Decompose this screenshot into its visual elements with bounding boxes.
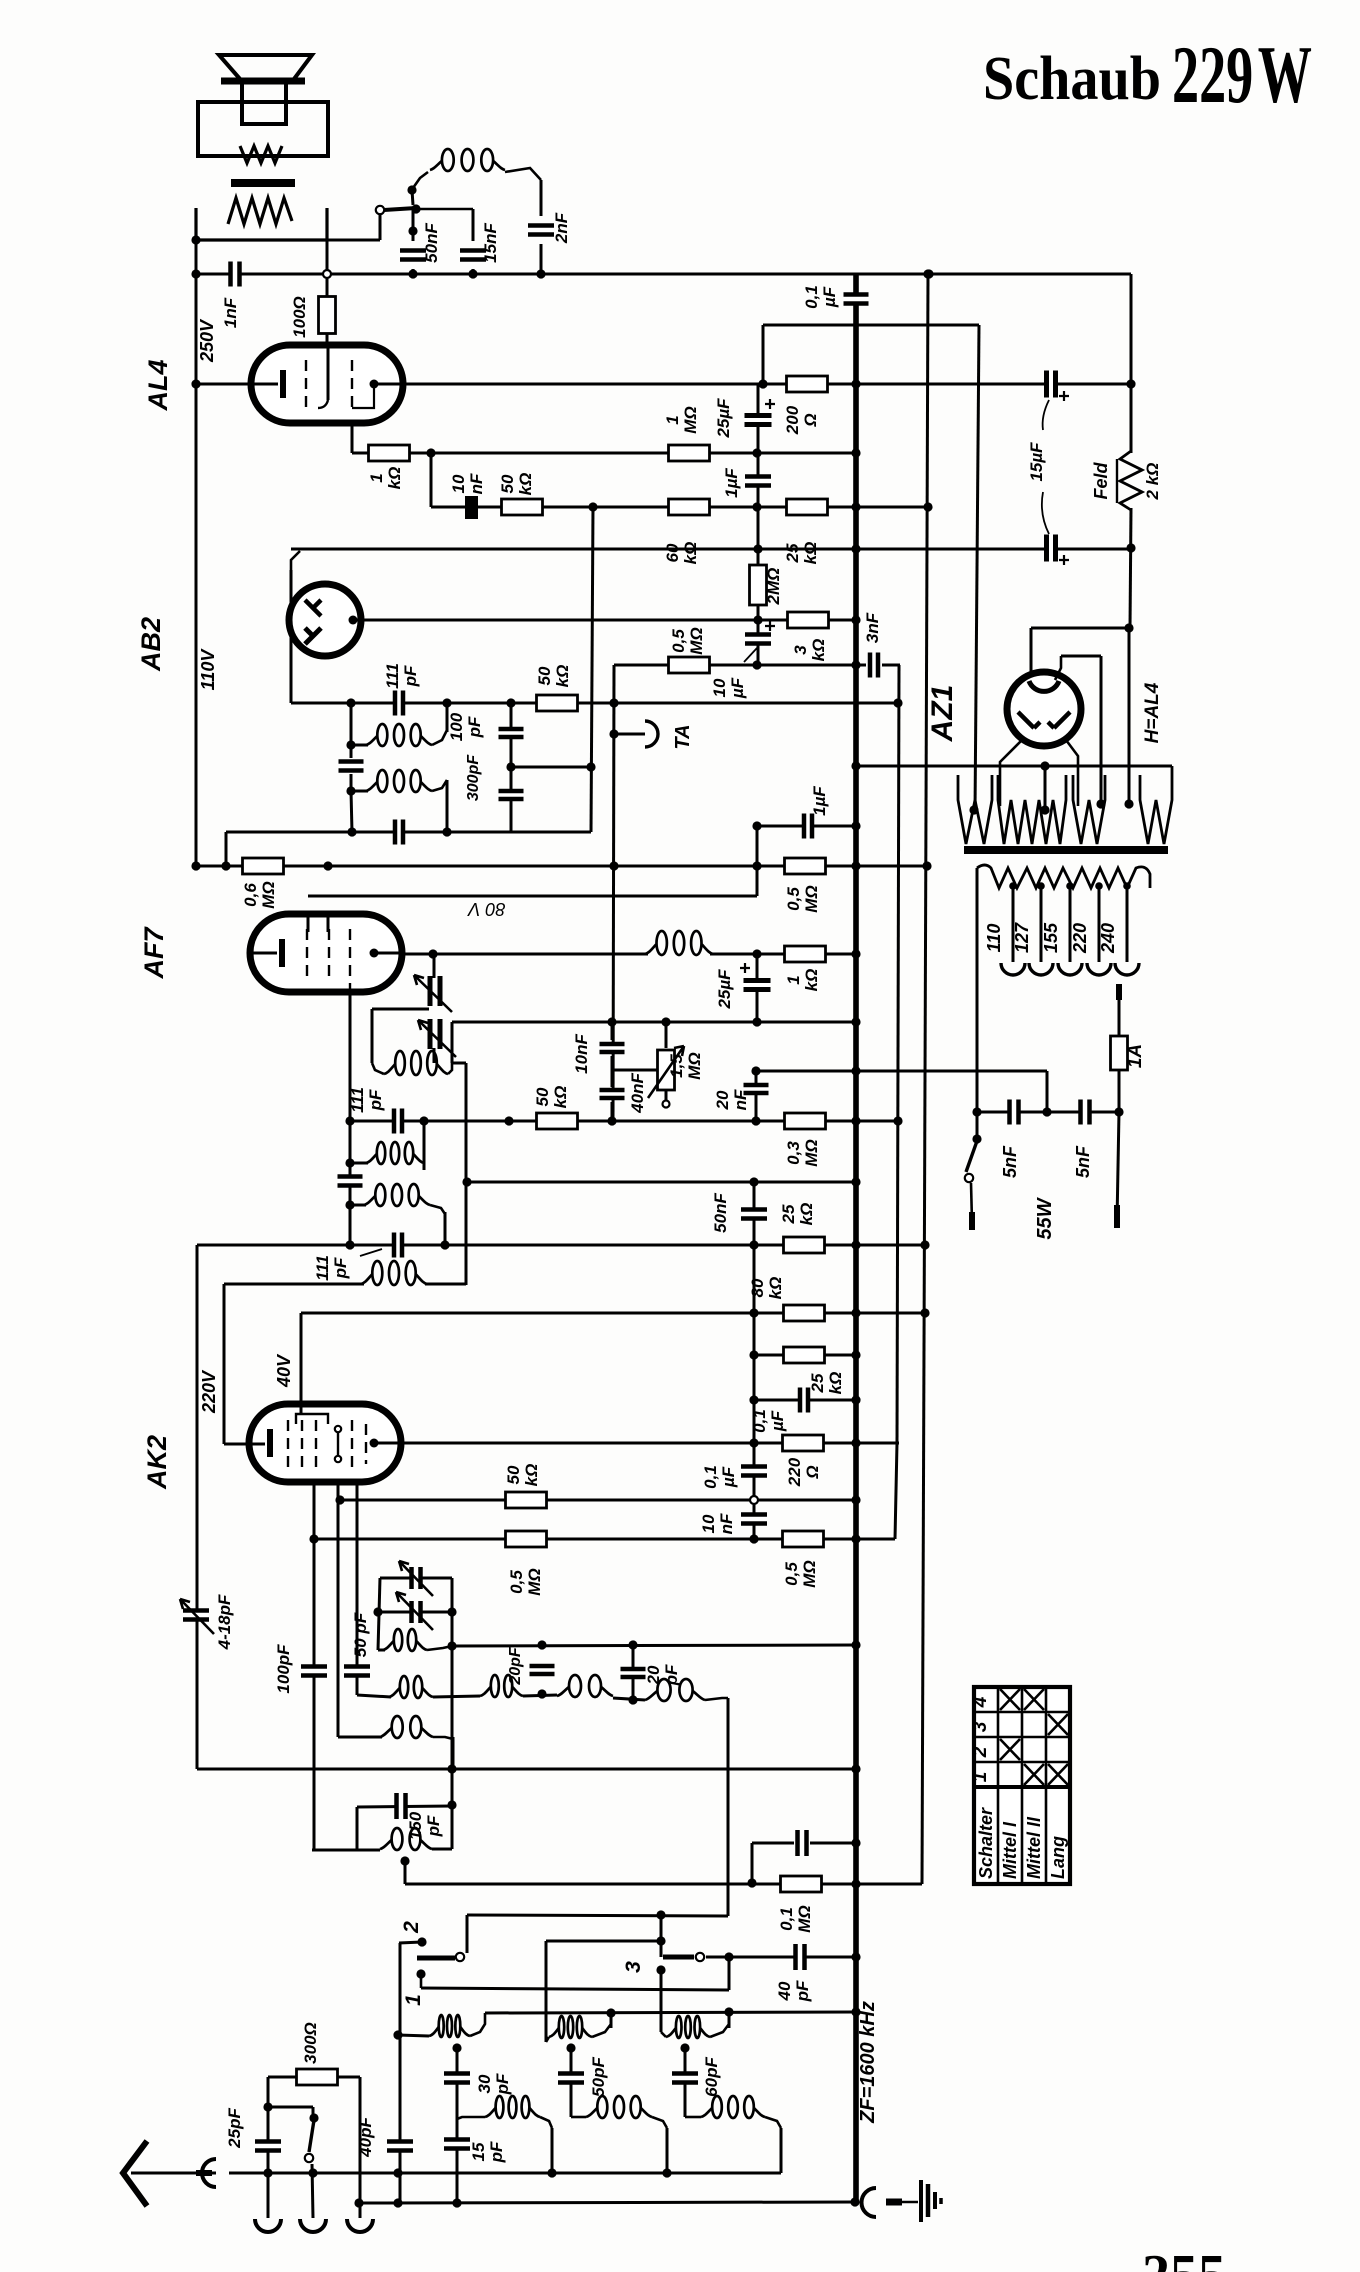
svg-text:3nF: 3nF xyxy=(863,612,882,643)
coil tank2 bottom xyxy=(586,2096,652,2118)
capacitor 0,1uF (AK2) xyxy=(741,1466,767,1477)
wire row y1355 xyxy=(754,1354,856,1357)
wire IF1a left stub xyxy=(351,744,368,747)
coil IF2a xyxy=(366,1142,424,1164)
node 666,1022 xyxy=(661,1017,670,1026)
node 612,1121 xyxy=(607,1116,616,1125)
AL4 screen lead inside xyxy=(327,348,330,400)
node 1045,810 xyxy=(1040,805,1049,814)
node 757,826 xyxy=(752,821,761,830)
svg-text:111: 111 xyxy=(348,1087,367,1113)
table X r1 Mittel II xyxy=(1024,1764,1044,1785)
AZ1 top lead xyxy=(1030,628,1033,676)
wire row y1022 xyxy=(452,1021,856,1024)
wire row y1941 xyxy=(546,1940,661,1943)
wire IF1b right riser xyxy=(446,780,449,832)
wire pot bottom stub xyxy=(665,1090,668,1100)
wire x360 (300ohm drop) xyxy=(359,2077,362,2218)
node 593,507 xyxy=(588,502,597,511)
ground symbol bars xyxy=(921,2180,941,2222)
wire x445 xyxy=(444,1212,447,1245)
node 929,274 xyxy=(924,269,933,278)
coil tank2b right xyxy=(652,2117,667,2128)
coil 150pF tank xyxy=(380,1828,432,1850)
svg-text:220V: 220V xyxy=(199,1369,219,1414)
svg-text:MΩ: MΩ xyxy=(525,1568,544,1595)
AF7 plate stub xyxy=(374,952,401,955)
AF7 grid dash 3 xyxy=(349,929,351,992)
switch2 pivot circle xyxy=(456,1953,464,1961)
wire x1129 right rail lower xyxy=(1128,628,1131,806)
wire AK2 plate row y1443 stub-cathode xyxy=(224,1443,283,1446)
wire left rail x197 lower (AK2 section) xyxy=(196,1245,199,1769)
wire heater row y766 xyxy=(856,765,1172,768)
node 473,274 xyxy=(468,269,477,278)
node 977,1112 xyxy=(972,1107,981,1116)
wire x571 (50pF2 chain) xyxy=(570,2048,573,2117)
node 855,2202 xyxy=(850,2197,859,2206)
antenna switch circle xyxy=(305,2154,313,2162)
node 754,1539 xyxy=(749,1534,758,1543)
svg-text:MΩ: MΩ xyxy=(800,1560,819,1587)
svg-text:5nF: 5nF xyxy=(1000,1145,1020,1178)
coil tank3 bottom xyxy=(701,2096,765,2118)
node 542,1694 xyxy=(537,1689,546,1698)
wire AK2 screen row y1313 xyxy=(301,1312,925,1315)
wire coil7 corner x357 xyxy=(356,1677,359,1695)
node 856,1957 xyxy=(851,1952,860,1961)
node 856,1769 xyxy=(851,1764,860,1773)
svg-text:MΩ: MΩ xyxy=(681,406,700,433)
AL4 grid dash 1 xyxy=(305,360,307,410)
AK2 grid dash 5 xyxy=(365,1424,367,1464)
wire x552 coil12a right xyxy=(551,2128,554,2173)
capacitor 50nF (AGC) xyxy=(741,1209,767,1220)
node 351,745 xyxy=(346,740,355,749)
node 509,1121 xyxy=(504,1116,513,1125)
antenna symbol xyxy=(123,2141,147,2206)
svg-text:Ω: Ω xyxy=(801,413,820,427)
svg-text:155: 155 xyxy=(1041,922,1061,953)
wire x758 (25uF/1uF/2M/10uF chain) xyxy=(757,384,760,665)
node 196,240 xyxy=(191,235,200,244)
svg-text:Feld: Feld xyxy=(1091,462,1111,500)
wire x453 coil6 right xyxy=(452,1737,455,1769)
node 398,2035 xyxy=(393,2030,402,2039)
node 378,1612 xyxy=(373,1607,382,1616)
node 350,1121 xyxy=(345,1116,354,1125)
node 856,1884 xyxy=(851,1879,860,1888)
AZ1 second lead xyxy=(1055,656,1061,680)
wire AF7 plate row y954 a xyxy=(374,953,648,956)
capacitor 150pF xyxy=(396,1793,407,1819)
svg-text:3: 3 xyxy=(622,1961,645,1973)
svg-text:50: 50 xyxy=(535,666,554,685)
node 757,866 xyxy=(752,861,761,870)
node 856,1500 xyxy=(851,1495,860,1504)
capacitor 10nF solid body xyxy=(465,496,478,519)
svg-text:0,5: 0,5 xyxy=(784,887,803,911)
wire AB2 plate row y620 xyxy=(361,619,856,622)
coil tank3 top xyxy=(666,2016,710,2038)
coil tank2 right rise xyxy=(592,2013,611,2037)
svg-text:2MΩ: 2MΩ xyxy=(764,568,783,606)
node 685,2048 xyxy=(680,2043,689,2052)
AB2 box top xyxy=(291,548,296,551)
tap hook 2 xyxy=(1029,963,1053,975)
resistor 2M xyxy=(750,565,767,605)
arrow of RF trimmer a xyxy=(399,1561,433,1596)
node 667,2173 xyxy=(662,2168,671,2177)
node 612,1022 xyxy=(607,1017,616,1026)
wire 15nF drop xyxy=(472,209,475,241)
capacitor 20nF xyxy=(744,1084,769,1094)
coil tank3b right xyxy=(765,2117,781,2128)
fuse terminal blob xyxy=(1114,1205,1120,1228)
node 541,274 xyxy=(536,269,545,278)
coil tank2b left xyxy=(571,2116,586,2119)
node 340,1500 xyxy=(335,1495,344,1504)
capacitor 40pF (osc) xyxy=(795,1944,806,1970)
coil IF2b right tail xyxy=(430,1205,445,1214)
wire coil left drop xyxy=(412,190,413,205)
resistor 100ohm xyxy=(319,297,336,334)
primary tap 5 xyxy=(1126,886,1129,962)
wire AZ1 top wire y628 xyxy=(1031,627,1129,630)
node 756,1071 xyxy=(751,1066,760,1075)
coil tank3 left tail xyxy=(661,2032,666,2037)
wire x327 100ohm feed xyxy=(326,274,329,297)
node 398,2203 xyxy=(393,2198,402,2207)
transformer winding claw 3 xyxy=(1073,775,1105,844)
resistor 50k (AB2) xyxy=(537,695,578,711)
primary tap 3 xyxy=(1069,886,1072,962)
wire IF1b left stub xyxy=(351,790,368,793)
svg-text:pF: pF xyxy=(465,716,484,738)
svg-text:220: 220 xyxy=(1070,923,1090,954)
AZ1 top dimple xyxy=(1029,681,1059,691)
wire x667 coil12 right xyxy=(666,2128,669,2173)
wire AK2 plate row y1443 xyxy=(374,1442,899,1445)
svg-text:1nF: 1nF xyxy=(221,297,240,328)
svg-text:µF: µF xyxy=(820,286,839,308)
svg-text:kΩ: kΩ xyxy=(681,542,700,565)
wire lever to 50nF xyxy=(412,209,415,241)
svg-text:20: 20 xyxy=(713,1090,732,1110)
wire 2nF riser xyxy=(540,180,543,216)
svg-text:Lang: Lang xyxy=(1048,1836,1068,1879)
node 552,2173 xyxy=(547,2168,556,2177)
AK2 cathode bar xyxy=(267,1429,273,1457)
wire row y325 xyxy=(763,324,979,327)
resistor 80k xyxy=(784,1305,825,1321)
ground jack hook xyxy=(862,2188,877,2217)
ground jack pin xyxy=(886,2199,902,2206)
capacitor 10nF (osc) xyxy=(600,1043,625,1053)
node 757,453 xyxy=(752,448,761,457)
node 856,1071 xyxy=(851,1066,860,1075)
coil tank1b left xyxy=(457,2117,485,2119)
AK2 grid dash 1 xyxy=(287,1420,289,1468)
capacitor IF1 coupling xyxy=(339,761,364,772)
resistor 25k (AGC1) xyxy=(784,1237,825,1253)
svg-text:127: 127 xyxy=(1012,922,1032,953)
resistor 0,5M (AF7 grid) xyxy=(785,858,826,874)
fuse 1A inner line xyxy=(1118,1036,1120,1070)
terminal hook 1 xyxy=(255,2219,281,2232)
wire x405 coil13 tap xyxy=(404,1861,407,1884)
node 359,2203 xyxy=(354,2198,363,2207)
node 398,2173 xyxy=(393,2168,402,2177)
node 314,2118 xyxy=(309,2113,318,2122)
wire 2-terminal wire y1943 xyxy=(399,1942,422,1943)
coil ant right tail xyxy=(427,1283,466,1286)
coil tank3b left xyxy=(685,2116,701,2119)
AZ1 filament right xyxy=(1048,712,1070,728)
mains switch lever xyxy=(966,1141,977,1172)
AL4 plate stub xyxy=(374,383,404,386)
svg-text:4: 4 xyxy=(970,1696,991,1708)
node 763,384 xyxy=(758,379,767,388)
node 542,1645 xyxy=(537,1640,546,1649)
capacitor 40pF (antenna) xyxy=(387,2141,413,2152)
node 856,866 xyxy=(851,861,860,870)
wire x661 lower (to coil10c) xyxy=(660,1970,663,2032)
wire x612 between caps xyxy=(611,1056,614,1087)
table X r3 Lang xyxy=(1048,1714,1068,1735)
node 754,1313 xyxy=(749,1308,758,1317)
node 452,1612 xyxy=(447,1607,456,1616)
svg-text:1,5: 1,5 xyxy=(667,1054,686,1078)
svg-text:30: 30 xyxy=(475,2074,494,2093)
primary tap 4 xyxy=(1098,886,1101,962)
wire x327 100ohm to tube xyxy=(326,333,329,348)
wire row y549 (AB2 box top) xyxy=(291,548,1131,551)
node 898,1121 xyxy=(893,1116,902,1125)
node 974,810 xyxy=(969,805,978,814)
switch3 pivot circle xyxy=(696,1953,704,1961)
svg-text:3: 3 xyxy=(970,1721,991,1732)
svg-text:4-18pF: 4-18pF xyxy=(215,1594,234,1650)
node 1131,548 xyxy=(1126,543,1135,552)
speaker cone base bar xyxy=(221,78,305,85)
wire x612 osc caps xyxy=(611,1022,614,1040)
node 661,1970 xyxy=(656,1965,665,1974)
svg-text:kΩ: kΩ xyxy=(809,639,828,662)
wire x511 (100pF/300pF chain) xyxy=(510,703,513,832)
capacitor 0,1uF (bus top) xyxy=(844,294,869,305)
svg-text:40: 40 xyxy=(775,1981,794,2001)
coil tone right tail xyxy=(505,168,541,180)
wire antenna row y2173 seg2 xyxy=(229,2172,781,2175)
svg-text:MΩ: MΩ xyxy=(259,881,278,908)
wire 50nF2 row y1843 xyxy=(752,1842,794,1845)
coil tank2 top xyxy=(549,2016,592,2038)
svg-text:pF: pF xyxy=(424,1815,443,1837)
svg-text:MΩ: MΩ xyxy=(802,1139,821,1166)
svg-text:10nF: 10nF xyxy=(572,1034,591,1074)
svg-text:15nF: 15nF xyxy=(481,223,500,263)
svg-text:5nF: 5nF xyxy=(1073,1145,1093,1178)
arrow of RF trimmer b xyxy=(396,1592,433,1630)
wire AF7 grid row y866 xyxy=(196,865,927,868)
coil tank1 right rise xyxy=(470,2013,485,2036)
wire row y896 xyxy=(308,895,757,898)
terminal hook 3 xyxy=(347,2219,373,2232)
svg-text:25: 25 xyxy=(783,543,802,563)
primary tap dot 5 xyxy=(1123,882,1131,890)
svg-text:ZF=1600 kHz: ZF=1600 kHz xyxy=(857,2001,879,2124)
node 352,832 xyxy=(347,827,356,836)
node 452,1805 xyxy=(447,1800,456,1809)
capacitor 50pF (tank2) xyxy=(558,2073,584,2084)
coil band9 right tail xyxy=(705,1698,728,1700)
svg-text:50 pF: 50 pF xyxy=(351,1612,370,1657)
wire row y1245 xyxy=(197,1244,925,1247)
wire x301 40V screen feed xyxy=(300,1313,303,1408)
AB2 plate dot xyxy=(349,616,358,625)
node 925,1313 xyxy=(920,1308,929,1317)
AF7 plate dot xyxy=(370,949,379,958)
node 856,384 xyxy=(851,379,860,388)
node 752,1883 xyxy=(747,1878,756,1887)
node 424,1121 xyxy=(419,1116,428,1125)
svg-text:Mittel II: Mittel II xyxy=(1024,1816,1044,1879)
resistor 0,1M? fuse body 1A xyxy=(1111,1036,1128,1070)
node 856,2012 xyxy=(851,2007,860,2016)
arrow of potentiometer 1,5M xyxy=(648,1046,684,1098)
tap hook 1 xyxy=(1001,963,1025,975)
wire AZ1 second wire y656 xyxy=(1061,655,1101,658)
svg-text:200: 200 xyxy=(783,405,802,435)
wire row y1850 stub xyxy=(312,1849,380,1852)
primary tap 1 xyxy=(1012,886,1015,962)
node 758,620 xyxy=(753,615,762,624)
primary tap dot 2 xyxy=(1037,882,1045,890)
coil antenna circuit xyxy=(361,1261,427,1285)
output secondary zigzag xyxy=(228,198,292,224)
coil osc tank xyxy=(384,1051,448,1075)
svg-text:2: 2 xyxy=(970,1746,991,1758)
wire IF1 chain c xyxy=(350,774,353,791)
wire y384 to right rail with 15uF xyxy=(856,383,1131,386)
table X r2 Mittel I xyxy=(1000,1739,1020,1760)
node 757,954 xyxy=(752,949,761,958)
wire x424 xyxy=(423,1121,426,1170)
primary tap 2 xyxy=(1040,886,1043,962)
node 457,2048 xyxy=(452,2043,461,2052)
node 614,866 xyxy=(609,861,618,870)
node 405,1861 xyxy=(400,1856,409,1865)
wire coil10 feed y2035 xyxy=(398,2035,429,2036)
wire x757 1uF corner xyxy=(756,826,759,896)
TA jack hook xyxy=(645,721,658,747)
tube AK2 envelope xyxy=(249,1404,401,1482)
AK2 plate dot xyxy=(370,1439,379,1448)
resistor Feld zigzag xyxy=(1120,451,1142,510)
capacitor 300pF xyxy=(499,790,524,800)
coil band8 xyxy=(480,1675,523,1697)
wire row y1284 b xyxy=(425,1283,466,1286)
AK2 grid dash 2 xyxy=(301,1420,303,1470)
plus of 10uF xyxy=(765,621,775,631)
node 856,1313 xyxy=(851,1308,860,1317)
table row line 1 xyxy=(974,1711,1070,1714)
node 452,1646 xyxy=(447,1641,456,1650)
wire osc tank left x372 xyxy=(371,1009,374,1063)
capacitor 40nF (osc) xyxy=(600,1089,625,1099)
svg-text:10: 10 xyxy=(449,474,468,493)
wire x899 (3nF down) xyxy=(897,665,899,1443)
node 856,826 xyxy=(851,821,860,830)
node 757,665 xyxy=(752,660,761,669)
resistor 0,3M xyxy=(785,1113,826,1129)
wire x612 below 40nF xyxy=(611,1102,614,1121)
node 268,2107 xyxy=(263,2102,272,2111)
wire x452 long (50pF box right) xyxy=(451,1578,454,1849)
wire x896 (row1539 riser) xyxy=(895,1443,897,1539)
wire box2 to switch xyxy=(327,239,380,242)
node 856,1022 xyxy=(851,1017,860,1026)
AZ1 filament left xyxy=(1018,712,1040,728)
AF7 grid1 feed stub xyxy=(307,914,310,932)
capacitor 0,1uF (AK2 plate) xyxy=(799,1388,809,1413)
wire x431 drop xyxy=(430,453,433,507)
svg-text:0,3: 0,3 xyxy=(784,1141,803,1165)
node 447,832 xyxy=(442,827,451,836)
node 754,1182 xyxy=(749,1177,758,1186)
svg-text:TA: TA xyxy=(672,724,694,749)
node 756,1121 xyxy=(751,1116,760,1125)
coil band9 xyxy=(645,1679,705,1701)
svg-text:10: 10 xyxy=(699,1514,718,1533)
AB2 box top-left chamfer xyxy=(291,551,300,570)
svg-text:300Ω: 300Ω xyxy=(301,2022,320,2064)
AL4 cathode bar xyxy=(280,370,286,398)
node 856,1182 xyxy=(851,1177,860,1186)
table X r4 Mittel I xyxy=(1000,1689,1020,1710)
AL4 suppressor link xyxy=(352,384,374,408)
node 856,665 xyxy=(851,660,860,669)
node 350,1163 xyxy=(345,1158,354,1167)
wire row y1884 xyxy=(405,1883,922,1886)
node 661,1941 xyxy=(656,1936,665,1945)
svg-text:229 W: 229 W xyxy=(1172,29,1312,120)
AL4 grid dash 2 xyxy=(351,360,353,410)
wire ground row y2203 xyxy=(359,2202,856,2203)
tube AF7 envelope xyxy=(250,914,402,992)
svg-text:60: 60 xyxy=(663,543,682,562)
resistor 0,5M (AB2) xyxy=(669,657,710,673)
coil band7 xyxy=(389,1676,433,1698)
svg-text:0,1: 0,1 xyxy=(701,1465,720,1489)
svg-text:H=AL4: H=AL4 xyxy=(1142,682,1163,743)
table col line 3 xyxy=(1045,1687,1048,1884)
svg-text:0,5: 0,5 xyxy=(507,1570,526,1594)
tone switch pivot xyxy=(376,206,384,214)
node 856,1400 xyxy=(851,1395,860,1404)
node 350,1245 xyxy=(345,1240,354,1249)
primary tap dot 4 xyxy=(1095,882,1103,890)
svg-text:pF: pF xyxy=(366,1089,385,1111)
node 614,734 xyxy=(609,729,618,738)
wire x1045 heater centre tap xyxy=(1044,766,1047,812)
AL4 screen hook xyxy=(318,400,328,408)
wire top rail y274 seg2 xyxy=(241,273,1131,276)
svg-text:100: 100 xyxy=(447,712,466,741)
wire x781 coil12b right xyxy=(780,2128,783,2173)
coil IF1b xyxy=(366,770,432,792)
